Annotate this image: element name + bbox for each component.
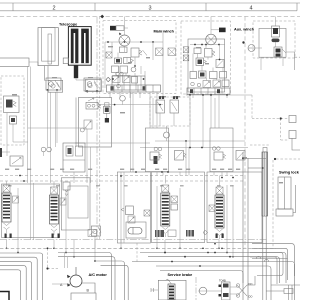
wire	[55, 92, 57, 147]
spool valve V1 body	[2, 193, 11, 222]
manifold cell dark	[111, 86, 114, 90]
spool valve V3 stripe	[162, 198, 169, 200]
spool valve V4 spring	[217, 229, 223, 236]
brake valve frame	[158, 280, 186, 300]
tiny annotation	[52, 77, 57, 78]
pump box divider	[288, 285, 290, 300]
tiny annotation	[196, 47, 201, 48]
junction dot	[46, 267, 48, 269]
spring	[139, 50, 142, 55]
bank module box 2	[61, 178, 90, 230]
boundary junction diamond	[100, 15, 104, 19]
bank center wire	[30, 183, 32, 240]
arrow	[98, 227, 101, 233]
wire	[115, 73, 117, 76]
motor bus wire	[190, 44, 225, 46]
cooler dashed enclosure	[253, 21, 295, 58]
spool line	[172, 102, 178, 111]
wire	[260, 57, 262, 70]
junction dot	[221, 247, 223, 249]
pipe run 5	[0, 270, 21, 300]
junction dot	[73, 256, 75, 258]
svg-text:Service brake: Service brake	[168, 273, 193, 277]
port square cross	[156, 48, 164, 56]
box inner edge	[75, 98, 77, 148]
wire	[50, 92, 52, 183]
solenoid T mark	[176, 96, 178, 99]
wire	[152, 42, 154, 60]
pipe run 4	[0, 266, 26, 300]
brake cross lines	[237, 285, 247, 296]
tiny annotation	[108, 46, 113, 47]
staircase line 2	[250, 257, 277, 284]
swing lock cylinder body	[278, 177, 291, 209]
tiny port label	[141, 169, 145, 170]
manifold divider	[207, 88, 209, 95]
spool valve V2 pilot cross	[51, 187, 58, 194]
telescope cylinder outer	[38, 28, 58, 66]
right dashed riser	[244, 17, 246, 249]
center dash-dot line	[96, 17, 98, 240]
spring	[98, 103, 101, 108]
junction dot	[189, 94, 191, 96]
solenoid valve arrow	[214, 81, 220, 86]
aux winch motor	[206, 34, 217, 45]
drop wire	[149, 98, 151, 128]
arrow	[217, 61, 223, 67]
riser 4	[265, 216, 267, 300]
valve arrow	[129, 217, 134, 222]
solenoid valve	[213, 80, 221, 87]
tiny annotation	[174, 96, 180, 97]
cylinder base	[276, 209, 293, 216]
junction dot	[53, 247, 55, 249]
wire	[73, 172, 75, 183]
wire	[294, 52, 296, 70]
wire	[65, 190, 67, 240]
junction dot	[120, 247, 122, 249]
port block	[63, 58, 68, 64]
stub wire	[218, 240, 220, 248]
brake charge valve	[10, 156, 23, 166]
bottom hatched block 1 white2	[159, 230, 161, 237]
pressure switch dark	[154, 156, 158, 164]
manifold divider	[129, 76, 131, 90]
filter bar	[248, 47, 255, 49]
manifold divider	[113, 85, 115, 92]
pump circle	[199, 287, 207, 295]
center dashed line	[99, 17, 101, 240]
wire	[219, 45, 221, 60]
pump box divider 2	[291, 285, 293, 300]
relief valve arrow	[85, 121, 91, 128]
port square	[168, 48, 176, 56]
wire	[90, 147, 92, 183]
outrigger cylinder barrel	[0, 58, 29, 67]
junction dot	[219, 59, 221, 61]
solenoid valve arrow	[114, 77, 120, 82]
junction dot	[221, 177, 223, 179]
sheet border top	[0, 2, 300, 4]
junction dot	[161, 171, 163, 173]
tank symbol	[151, 288, 154, 292]
wire	[230, 286, 237, 288]
junction dot	[23, 180, 25, 182]
spool valve V3 stripe	[162, 195, 169, 197]
bank module box 3	[117, 172, 150, 243]
condenser box	[71, 293, 96, 300]
brake spool body	[168, 284, 175, 300]
gauge	[47, 147, 52, 152]
main winch brake solenoid (dark)	[110, 26, 116, 31]
wire	[219, 176, 221, 186]
trunk row C	[95, 261, 125, 300]
pipe run 2	[0, 257, 37, 300]
dashed pilot riser	[251, 95, 253, 119]
tiny annotation	[12, 94, 17, 95]
wire	[12, 124, 14, 142]
spool valve V3 pilot	[162, 185, 169, 192]
junction dot	[112, 78, 114, 80]
wire	[47, 90, 49, 147]
svg-text:Aux. winch: Aux. winch	[234, 28, 255, 32]
brake spool stripe	[169, 286, 174, 288]
junction dot	[214, 243, 216, 245]
pump box left	[270, 285, 272, 300]
tiny annotation	[242, 157, 247, 158]
spool valve V2 stripe	[51, 203, 58, 205]
wire	[6, 230, 8, 233]
spool valve V4 stripe	[216, 219, 223, 221]
spool valve V1 stripe	[3, 214, 10, 216]
spool valve V4 pilot cross	[216, 187, 223, 194]
valve ball	[51, 84, 55, 88]
zone separator	[296, 3, 298, 11]
accumulator capsule	[128, 228, 142, 235]
port	[144, 210, 150, 216]
spring	[204, 60, 207, 63]
valve	[128, 216, 135, 223]
tiny annotation	[205, 63, 209, 64]
zone separator	[94, 3, 96, 11]
tiny port label	[88, 169, 92, 170]
trunk row B	[58, 257, 115, 300]
spool valve V2 pilot	[51, 187, 58, 194]
bypass cartridge dark	[273, 28, 278, 34]
valve	[126, 206, 134, 215]
motor shaft	[75, 267, 77, 275]
trunk row A	[58, 253, 112, 300]
junction dot	[47, 247, 49, 249]
telescope cylinder sleeve	[42, 28, 56, 62]
pipe run 3	[0, 261, 32, 300]
pilot port	[183, 55, 189, 61]
arrow	[94, 81, 99, 88]
motor cross	[121, 37, 129, 45]
orifice diamond	[106, 77, 110, 81]
junction dot	[199, 265, 201, 267]
tiny port label	[236, 169, 240, 170]
junction dot	[19, 175, 21, 177]
spool valve V3 stripe	[162, 217, 169, 219]
wire	[120, 172, 122, 243]
telescope cyl wires	[45, 66, 48, 81]
wire	[86, 129, 88, 147]
spring	[212, 51, 215, 56]
wire	[197, 54, 199, 59]
wire	[144, 71, 146, 76]
wire	[134, 73, 136, 77]
brake spool stripe	[169, 298, 174, 300]
wire	[6, 142, 8, 156]
manifold drop wire	[226, 95, 228, 99]
main winch motor	[119, 35, 130, 46]
port tick dark	[216, 234, 218, 239]
cross link	[248, 167, 263, 169]
valve	[132, 77, 138, 84]
port square cross	[168, 48, 176, 56]
bypass valve stack	[272, 26, 280, 37]
stub wire top	[221, 172, 223, 176]
pressure control box	[79, 98, 112, 148]
spool valve V1 stripe	[3, 211, 10, 213]
tank box (thick, cropped)	[0, 292, 9, 300]
wire	[266, 290, 284, 292]
tiny port label	[50, 169, 54, 170]
junction dot	[210, 94, 212, 96]
counterbalance valve body	[4, 96, 20, 113]
junction dot	[143, 78, 145, 80]
motor bus wire	[105, 41, 163, 43]
solenoid T mark	[173, 96, 175, 99]
drop wire	[132, 92, 134, 172]
riser 2	[247, 158, 249, 300]
wire	[164, 234, 166, 237]
pilot component b	[289, 131, 296, 139]
stub wire	[6, 240, 8, 248]
manifold drop wire	[192, 95, 194, 99]
junction dot	[167, 171, 169, 173]
cooler inner box	[259, 28, 286, 57]
junction dot	[229, 256, 231, 258]
gauge	[217, 147, 221, 151]
check valve	[131, 67, 136, 72]
left edge component dark	[0, 148, 2, 157]
striped bar inner line	[263, 152, 265, 216]
cartridge dark	[200, 73, 205, 77]
telescope valve right	[85, 80, 101, 92]
aux bottom bus	[186, 94, 252, 96]
tiny annotation	[160, 96, 166, 97]
dashed box top	[250, 144, 270, 146]
pilot check valve	[10, 116, 17, 124]
A/C motor circle	[70, 275, 82, 287]
capsule dark	[272, 39, 280, 43]
bottom hatched block 1 white	[156, 230, 158, 237]
spool valve V2 stripe	[51, 216, 58, 218]
tiny annotation	[279, 182, 283, 183]
tiny port label	[27, 169, 31, 170]
brake spool stripe	[169, 289, 174, 291]
junction dot	[164, 252, 166, 254]
swing brake striped bar	[262, 152, 268, 216]
V3 satellite cross	[171, 196, 178, 203]
arrow	[12, 158, 21, 165]
spool valve V3 stripe	[162, 207, 169, 209]
spool valve V4 stripe	[216, 216, 223, 218]
check valve stack	[274, 47, 282, 57]
wire	[76, 79, 88, 81]
telescope stage bar 2 (dark)	[81, 29, 89, 64]
tiny port label	[178, 169, 182, 170]
arrow	[143, 50, 148, 56]
V1 satellite	[13, 196, 19, 203]
wire	[140, 66, 142, 74]
wire	[205, 45, 207, 49]
telescope cylinder 2 outer	[68, 27, 91, 66]
wire	[2, 151, 10, 153]
spool valve V3 stripe	[162, 201, 169, 203]
wire	[52, 283, 70, 285]
relief valve	[131, 48, 139, 57]
port square	[156, 48, 164, 56]
bottom hatched block 2 white2	[190, 230, 192, 237]
wire	[124, 27, 128, 29]
telescope stage bar 1 (dark)	[71, 29, 79, 64]
wire	[6, 113, 8, 143]
piston rod	[284, 177, 286, 209]
junction dot	[134, 65, 136, 67]
tiny port label	[228, 169, 232, 170]
junction dot	[17, 252, 19, 254]
valve	[120, 66, 128, 73]
valve	[220, 72, 227, 79]
bottom valve	[168, 230, 176, 237]
spool valve V4 stripe	[216, 209, 223, 211]
wire	[17, 188, 19, 240]
wire	[198, 290, 222, 292]
control valve	[84, 78, 101, 91]
svg-text:Telescope: Telescope	[59, 23, 77, 27]
dashed drop 2	[136, 243, 138, 262]
junction dot	[107, 41, 109, 43]
pilot bus wire	[98, 104, 163, 106]
spool valve V4 body	[215, 195, 224, 228]
drain filter	[164, 132, 170, 138]
V4 satellite	[209, 205, 215, 212]
spool valve V2 body	[50, 195, 59, 224]
tiny port label 2	[8, 185, 12, 186]
wire corner	[292, 138, 300, 150]
junction dot	[156, 247, 158, 249]
wire	[275, 17, 277, 27]
main winch dashed enclosure	[103, 21, 176, 94]
spool valve V3 stripe	[162, 223, 169, 225]
valve	[210, 72, 218, 79]
head valve 1	[150, 152, 159, 160]
riser short	[64, 253, 66, 269]
manifold drop wire	[149, 92, 151, 98]
trunk row D	[101, 265, 129, 300]
svg-text:4: 4	[249, 5, 252, 11]
module left rail	[104, 42, 106, 88]
solenoid valve	[203, 81, 211, 88]
bottom hatched block 1	[155, 230, 164, 237]
solenoid valve B	[170, 100, 179, 113]
junction dot	[232, 256, 234, 258]
manifold drop wire	[119, 92, 121, 98]
wire	[189, 95, 191, 148]
spool valve V1 stripe	[3, 204, 10, 206]
stage rod core 2	[84, 33, 86, 63]
junction dot	[205, 44, 207, 46]
trunk wire	[75, 142, 150, 144]
riser 3	[262, 216, 264, 300]
port tick dark	[10, 234, 12, 239]
pilot component p	[289, 116, 296, 123]
wire	[134, 58, 136, 67]
tiny port label 2	[124, 185, 128, 186]
wire	[219, 236, 221, 239]
junction dot	[207, 252, 209, 254]
spool valve V2 stripe	[51, 206, 58, 208]
solenoid T mark	[162, 96, 164, 99]
wire	[232, 185, 234, 240]
pipe hop 2	[265, 260, 269, 262]
tiny port label 2	[160, 185, 164, 186]
riser short	[67, 257, 69, 268]
bottom hatched block 2	[186, 230, 194, 237]
ball	[93, 229, 97, 233]
tiny port label	[155, 169, 159, 170]
spring	[223, 154, 226, 159]
check cartridge dark	[11, 118, 15, 122]
junction dot	[189, 147, 191, 149]
gauge	[41, 147, 46, 152]
valve	[222, 80, 229, 87]
junction dot	[65, 252, 67, 254]
tiny port label	[186, 169, 190, 170]
cross port	[236, 284, 240, 288]
manifold drop wire	[218, 95, 220, 99]
riser 1	[242, 152, 244, 300]
valve	[199, 71, 207, 78]
brake spool stripe	[169, 292, 174, 294]
brake valve cluster	[91, 226, 100, 236]
wire	[123, 172, 125, 243]
wire	[282, 57, 284, 66]
aux winch brake solenoid (dark)	[219, 28, 226, 33]
wire	[226, 185, 228, 240]
trunk row F	[148, 257, 280, 283]
junction dot	[226, 94, 228, 96]
wire	[56, 90, 58, 143]
pilot supply valve	[46, 78, 61, 90]
bottom valve left	[88, 230, 97, 237]
manifold divider	[140, 76, 142, 90]
accumulator divider	[63, 159, 85, 161]
wire	[124, 46, 126, 52]
valve	[216, 60, 224, 68]
spool valve V4 stripe	[216, 200, 223, 202]
junction dot	[6, 247, 8, 249]
wire	[75, 78, 77, 80]
orifice block	[194, 48, 201, 54]
wire	[166, 138, 168, 141]
junction dot	[280, 117, 282, 119]
trunk wire horizontal	[28, 127, 87, 129]
port tick dark	[5, 234, 7, 239]
